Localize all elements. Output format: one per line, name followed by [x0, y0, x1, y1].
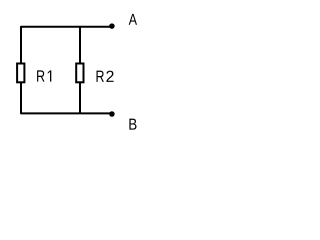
- wire: top horizontal + left vertical + bottom horizontal (A-R1-B loop): [21, 27, 112, 114]
- label B: [129, 119, 136, 130]
- label A: [129, 14, 137, 25]
- wire: R2 branch vertical: [79, 27, 81, 114]
- label R1 - letter R: [37, 70, 44, 81]
- node B dot: [109, 111, 115, 117]
- resistor R2: [76, 64, 83, 83]
- resistor R1: [17, 64, 24, 83]
- label R2 - letter R: [97, 71, 104, 82]
- label R1 - digit 1: [48, 70, 51, 81]
- node A dot: [109, 23, 115, 29]
- label R2 - digit 2: [106, 71, 113, 82]
